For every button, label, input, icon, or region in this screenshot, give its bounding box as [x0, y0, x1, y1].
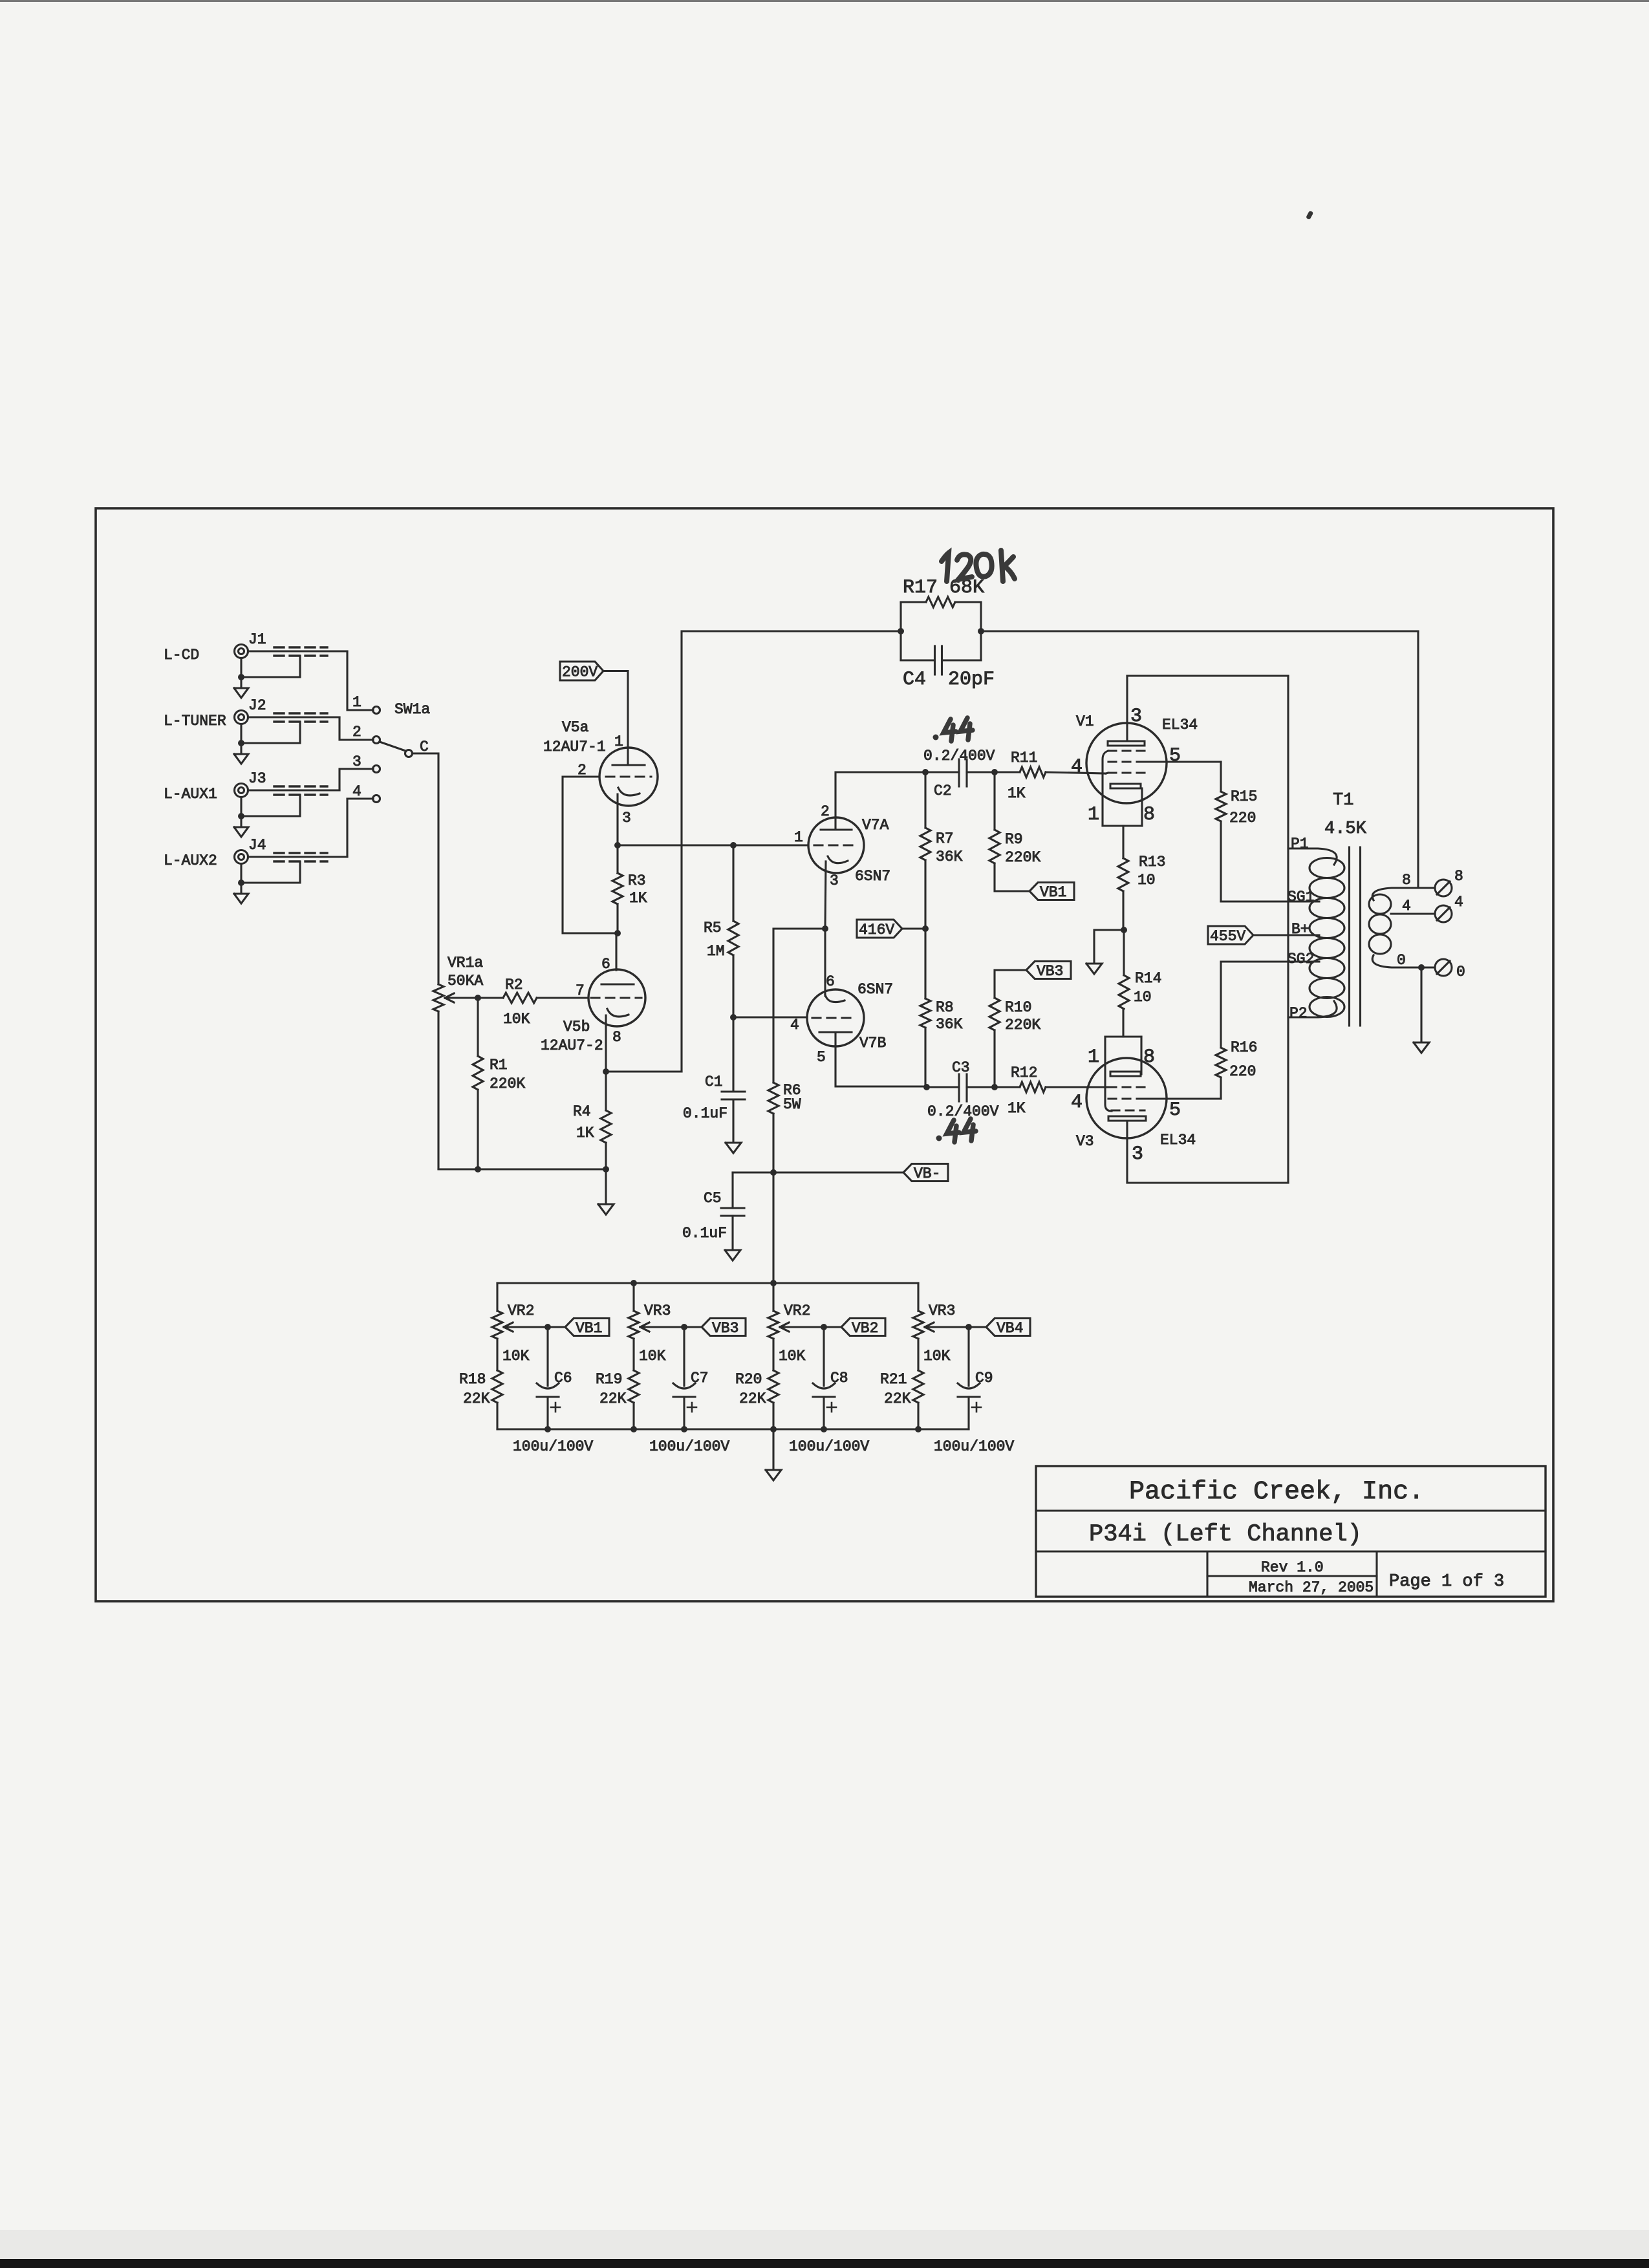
wire V3 screen to R16 [1146, 1097, 1221, 1099]
svg-text:R5: R5 [704, 920, 722, 936]
svg-text:5: 5 [817, 1049, 826, 1066]
svg-text:455V: 455V [1210, 928, 1245, 945]
svg-text:V7A: V7A [862, 817, 889, 834]
svg-text:200V: 200V [562, 664, 598, 681]
wire VB- row [733, 1171, 903, 1173]
svg-text:Page 1 of 3: Page 1 of 3 [1389, 1572, 1504, 1592]
svg-text:2: 2 [821, 803, 830, 820]
node C2 left [922, 769, 929, 775]
svg-text:SG2: SG2 [1288, 951, 1314, 967]
resistor R4 1K [573, 1072, 611, 1169]
node R17 left [898, 628, 904, 634]
svg-text:V3: V3 [1076, 1133, 1094, 1150]
svg-text:20pF: 20pF [948, 669, 995, 691]
resistor R1 220K [473, 998, 525, 1169]
svg-text:4.5K: 4.5K [1324, 819, 1367, 839]
svg-text:Rev 1.0: Rev 1.0 [1261, 1559, 1324, 1576]
scan speck [1306, 210, 1313, 220]
wire switch common C to VR1a [413, 753, 439, 984]
wire V5a cathode to node [616, 794, 618, 845]
svg-text:2: 2 [352, 724, 361, 740]
capacitor C4 20pF [901, 646, 995, 691]
bias tag VB3 (upper) [1026, 962, 1071, 980]
node R5 bottom / V7B grid [730, 1014, 737, 1021]
svg-text:L-CD: L-CD [164, 647, 199, 664]
wire bias bus top [497, 1280, 918, 1286]
wire V1 plate to transformer [1127, 675, 1288, 676]
potentiometer VR3 / resistor R21 / capacitor C9 / tag VB4 [880, 1283, 1030, 1455]
svg-text:R16: R16 [1231, 1039, 1257, 1056]
svg-text:C3: C3 [952, 1059, 970, 1076]
svg-text:22K: 22K [599, 1390, 627, 1407]
svg-text:SW1a: SW1a [394, 701, 430, 718]
bias tag VB1 (upper) [1029, 883, 1074, 902]
svg-text:March 27, 2005: March 27, 2005 [1249, 1579, 1374, 1596]
svg-text:220: 220 [1229, 1063, 1256, 1080]
resistor R14 10 [1119, 930, 1161, 1037]
wire global feedback [682, 631, 1418, 1072]
wire V1 screen to R15 [1146, 761, 1221, 762]
wire V1 grid from R11 [1106, 773, 1108, 773]
wire V5a cathode row to V7A grid [618, 844, 808, 846]
svg-text:220K: 220K [490, 1075, 525, 1092]
svg-text:5: 5 [1169, 745, 1181, 767]
svg-text:VB2: VB2 [852, 1320, 878, 1337]
svg-text:R10: R10 [1005, 999, 1031, 1016]
potentiometer VR3 / resistor R19 / capacitor C7 / tag VB3 [596, 1283, 746, 1455]
svg-text:8: 8 [612, 1029, 621, 1046]
ground at V1 cathode [1086, 930, 1124, 974]
capacitor C2 0.2/400V [923, 748, 1020, 799]
svg-text:100u/100V: 100u/100V [934, 1438, 1014, 1455]
svg-text:R17 68K: R17 68K [903, 577, 984, 599]
svg-text:C5: C5 [704, 1190, 722, 1207]
svg-text:5W: 5W [783, 1096, 801, 1113]
svg-text:5: 5 [1169, 1099, 1181, 1121]
svg-text:1: 1 [1088, 1046, 1099, 1068]
svg-text:R14: R14 [1135, 970, 1161, 987]
title text revision [1261, 1559, 1324, 1576]
capacitor C3 0.2/400V [927, 1059, 1020, 1120]
svg-text:EL34: EL34 [1160, 1132, 1196, 1149]
svg-text:10K: 10K [639, 1348, 666, 1365]
svg-text:220K: 220K [1005, 1017, 1040, 1033]
pentode V1 EL34 [1071, 676, 1198, 826]
svg-text:C4: C4 [903, 669, 926, 691]
svg-text:220K: 220K [1005, 849, 1040, 866]
node wiper junction [475, 995, 481, 1001]
svg-text:100u/100V: 100u/100V [513, 1438, 593, 1455]
svg-text:1M: 1M [707, 943, 725, 960]
svg-text:VB4: VB4 [997, 1320, 1023, 1337]
svg-text:3: 3 [352, 753, 361, 770]
connector J1 (L-CD) with shield and ground [164, 631, 347, 698]
resistor R11 1K [1008, 750, 1106, 802]
svg-text:4: 4 [1071, 756, 1083, 778]
node 416V [922, 925, 929, 932]
svg-text:36K: 36K [936, 848, 963, 865]
svg-text:C9: C9 [975, 1370, 993, 1387]
ground at secondary [1414, 967, 1429, 1053]
svg-text:P1: P1 [1291, 836, 1309, 852]
svg-text:T1: T1 [1333, 791, 1353, 810]
svg-text:1: 1 [352, 694, 361, 711]
potentiometer VR2 / resistor R18 / capacitor C6 / tag VB1 [459, 1283, 609, 1455]
wire ground bus V5b cathode [438, 1166, 609, 1172]
svg-text:R18: R18 [459, 1371, 486, 1388]
svg-text:Pacific Creek, Inc.: Pacific Creek, Inc. [1129, 1478, 1424, 1507]
svg-text:VR2: VR2 [784, 1302, 810, 1319]
svg-text:6: 6 [826, 973, 835, 990]
svg-text:3: 3 [622, 810, 631, 826]
handwritten .44 upper [933, 718, 973, 741]
node secondary ground [1418, 964, 1425, 971]
svg-text:100u/100V: 100u/100V [649, 1438, 729, 1455]
svg-text:22K: 22K [739, 1390, 766, 1407]
resistor R9 220K [989, 772, 1040, 891]
wire V7B plate to C3 row [835, 1032, 927, 1086]
transformer T1 4.5K primary [1288, 676, 1367, 1183]
svg-text:0: 0 [1456, 964, 1465, 980]
svg-text:4: 4 [1402, 898, 1411, 914]
svg-text:6SN7: 6SN7 [857, 981, 893, 998]
bias tag VB- [903, 1164, 948, 1183]
svg-text:10: 10 [1137, 872, 1156, 889]
svg-text:10K: 10K [502, 1348, 530, 1365]
svg-text:VB3: VB3 [1037, 963, 1063, 980]
wire J3 to switch contact 3 [339, 769, 373, 790]
node V5a cathode junction [614, 842, 621, 848]
title text date [1249, 1579, 1374, 1596]
svg-text:VB1: VB1 [576, 1320, 602, 1337]
node R17 right [978, 628, 984, 634]
connector J2 (L-TUNER) with shield and ground [164, 697, 339, 764]
resistor R16 220 [1216, 962, 1319, 1099]
svg-text:416V: 416V [859, 922, 894, 938]
resistor R13 10 [1118, 854, 1165, 930]
ground below R4 [598, 1169, 614, 1215]
svg-text:10: 10 [1134, 989, 1152, 1006]
wire J1 to switch contact 1 [347, 651, 373, 710]
svg-text:J1: J1 [248, 631, 266, 648]
svg-text:8: 8 [1402, 872, 1411, 889]
transformer T1 secondary [1369, 872, 1435, 969]
handwritten 120k [942, 550, 1015, 581]
svg-text:8: 8 [1143, 804, 1155, 826]
terminal 8 ohm [1435, 868, 1463, 896]
svg-text:L-TUNER: L-TUNER [164, 713, 226, 729]
node C2 right [991, 769, 998, 775]
svg-text:R15: R15 [1231, 788, 1257, 805]
handwritten .44 lower [936, 1119, 976, 1142]
svg-text:L-AUX2: L-AUX2 [164, 852, 217, 869]
svg-text:VR3: VR3 [644, 1302, 671, 1319]
svg-text:22K: 22K [463, 1390, 490, 1407]
svg-text:J3: J3 [248, 770, 266, 787]
node V7A cathode [822, 925, 828, 932]
svg-text:12AU7-2: 12AU7-2 [541, 1037, 603, 1054]
svg-text:6SN7: 6SN7 [855, 868, 890, 885]
wire J2 to switch contact 2 [339, 717, 373, 740]
svg-text:VR2: VR2 [508, 1302, 534, 1319]
svg-text:0: 0 [1397, 952, 1406, 969]
resistor R7 36K [920, 772, 963, 929]
svg-text:R12: R12 [1011, 1064, 1037, 1081]
svg-text:220: 220 [1229, 810, 1256, 826]
svg-text:EL34: EL34 [1162, 717, 1198, 733]
svg-text:P2: P2 [1289, 1005, 1308, 1022]
svg-text:1: 1 [1088, 804, 1099, 826]
capacitor C1 0.1uF [683, 1017, 745, 1153]
svg-text:V5b: V5b [563, 1019, 590, 1035]
resistor R10 220K [989, 970, 1040, 1087]
svg-text:R21: R21 [880, 1371, 907, 1388]
svg-text:J4: J4 [248, 837, 266, 854]
resistor R17 68K [901, 577, 984, 660]
svg-text:J2: J2 [248, 697, 266, 714]
connector J4 (L-AUX2) with shield and ground [164, 837, 347, 903]
svg-text:0.2/400V: 0.2/400V [927, 1103, 999, 1120]
triode V7B 6SN7 [790, 973, 893, 1066]
svg-text:0.2/400V: 0.2/400V [923, 748, 995, 764]
svg-text:1K: 1K [1008, 1100, 1026, 1117]
wire V7B grid from R5 node [733, 1016, 807, 1018]
triode V7A 6SN7 [794, 803, 890, 889]
svg-text:3: 3 [1130, 706, 1142, 728]
svg-text:10K: 10K [923, 1348, 951, 1365]
svg-text:VB3: VB3 [712, 1320, 738, 1337]
wire V3 grid from R12 [1106, 1086, 1108, 1088]
resistor R3 1K [612, 845, 647, 933]
node C3 right [991, 1084, 998, 1090]
scanner bottom shading [0, 2230, 1649, 2262]
terminal 4 ohm [1435, 894, 1463, 922]
triode V5a 12AU7-1 [543, 719, 658, 826]
svg-text:R20: R20 [735, 1371, 762, 1388]
resistor R6 5W [768, 929, 801, 1172]
resistor R12 1K [1008, 1064, 1106, 1117]
svg-text:V7B: V7B [859, 1035, 886, 1052]
svg-text:R8: R8 [936, 999, 954, 1016]
page border frame [96, 508, 1553, 1601]
potentiometer VR1a 50KA [433, 955, 483, 1169]
resistor R5 1M [704, 845, 738, 1017]
wire V5a grid loop [563, 777, 618, 933]
svg-text:VB-: VB- [914, 1165, 940, 1182]
voltage tag 455V [1208, 926, 1319, 945]
svg-text:V5a: V5a [562, 719, 589, 736]
wire V1 cathode [1122, 826, 1124, 858]
scanner top edge [0, 0, 1649, 2]
triode V5b 12AU7-2 [541, 956, 645, 1054]
svg-text:L-AUX1: L-AUX1 [164, 786, 217, 803]
wire V7A cathode [825, 861, 826, 929]
power tag 200V [560, 662, 628, 765]
svg-text:R2: R2 [505, 977, 523, 993]
svg-text:R3: R3 [628, 872, 646, 889]
svg-text:8: 8 [1454, 868, 1463, 885]
title text schematic name [1089, 1521, 1362, 1548]
capacitor C5 0.1uF [682, 1172, 744, 1260]
svg-text:1K: 1K [629, 890, 647, 907]
title text page [1389, 1572, 1504, 1592]
svg-text:50KA: 50KA [447, 973, 483, 989]
connector J3 (L-AUX1) with shield and ground [164, 770, 339, 837]
svg-text:SG1: SG1 [1288, 889, 1314, 905]
switch SW1a contacts and blade [352, 694, 430, 803]
svg-text:VR3: VR3 [929, 1302, 955, 1319]
svg-text:1: 1 [794, 829, 803, 846]
transformer T1 core [1350, 847, 1361, 1026]
wire V5b plate [615, 933, 617, 970]
svg-text:4: 4 [1071, 1092, 1083, 1114]
voltage tag 416V [857, 920, 925, 938]
svg-text:R7: R7 [936, 830, 954, 847]
svg-text:7: 7 [576, 982, 585, 999]
scanner bottom edge [0, 2259, 1649, 2268]
resistor R2 10K [478, 977, 588, 1028]
wire bias bus bottom [497, 1426, 969, 1432]
svg-text:100u/100V: 100u/100V [789, 1438, 869, 1455]
terminal 0 ohm [1435, 959, 1465, 980]
wire J4 to switch contact 4 [347, 799, 373, 857]
svg-text:8: 8 [1143, 1046, 1155, 1068]
svg-text:P34i (Left Channel): P34i (Left Channel) [1089, 1521, 1362, 1548]
svg-text:4: 4 [790, 1017, 799, 1033]
svg-text:C8: C8 [830, 1370, 848, 1387]
svg-text:C2: C2 [934, 783, 952, 799]
pentode V3 EL34 [1071, 1037, 1196, 1183]
svg-text:VR1a: VR1a [447, 955, 483, 971]
svg-text:10K: 10K [779, 1348, 806, 1365]
wire cathode node down to V7B [824, 929, 826, 996]
svg-text:4: 4 [352, 783, 361, 800]
wire V5b cathode to feedback node [603, 1015, 682, 1075]
svg-text:10K: 10K [503, 1011, 530, 1028]
wire R6 down to bias bus [772, 1172, 774, 1283]
svg-text:C1: C1 [705, 1074, 723, 1090]
svg-text:1K: 1K [576, 1125, 594, 1141]
resistor R15 220 [1216, 762, 1319, 902]
svg-text:C7: C7 [691, 1370, 709, 1387]
svg-text:12AU7-1: 12AU7-1 [543, 739, 606, 755]
svg-text:0.1uF: 0.1uF [683, 1105, 727, 1122]
svg-text:22K: 22K [884, 1390, 911, 1407]
svg-text:VB1: VB1 [1040, 884, 1066, 901]
title block frame [1036, 1466, 1546, 1597]
svg-text:6: 6 [601, 956, 610, 973]
svg-text:V1: V1 [1076, 713, 1094, 730]
node R5 top [730, 842, 737, 848]
resistor R8 36K [920, 929, 963, 1087]
svg-text:3: 3 [1132, 1143, 1143, 1165]
wire cathode node left to R6 [774, 927, 825, 929]
node V1 cathode return [1121, 927, 1127, 933]
svg-text:R13: R13 [1139, 854, 1165, 870]
svg-text:R1: R1 [490, 1057, 508, 1074]
potentiometer VR2 / resistor R20 / capacitor C8 / tag VB2 [735, 1283, 885, 1455]
svg-text:R4: R4 [573, 1103, 591, 1120]
svg-text:36K: 36K [936, 1016, 963, 1033]
node VB- junction [770, 1169, 777, 1176]
svg-text:R11: R11 [1011, 750, 1037, 766]
svg-text:C6: C6 [554, 1370, 572, 1387]
svg-text:3: 3 [830, 872, 839, 889]
ground at bias bus [766, 1429, 781, 1480]
svg-text:1K: 1K [1008, 785, 1026, 802]
svg-text:0.1uF: 0.1uF [682, 1225, 727, 1242]
tap SG1 wire [1221, 900, 1319, 902]
wire V3 plate to transformer [1127, 1182, 1288, 1183]
wire V7A plate to C2 row [835, 772, 925, 830]
svg-text:R9: R9 [1005, 831, 1023, 848]
title text company [1129, 1478, 1424, 1507]
svg-text:4: 4 [1454, 894, 1463, 911]
svg-text:1: 1 [614, 733, 623, 750]
svg-text:R19: R19 [596, 1371, 622, 1388]
node below R3 [614, 930, 621, 936]
node C3 left [923, 1084, 930, 1090]
